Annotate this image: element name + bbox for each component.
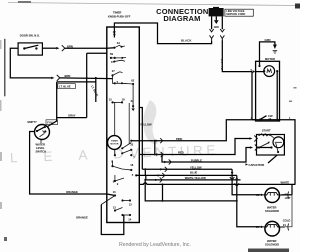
svg-text:GND: GND (214, 26, 220, 29)
svg-text:TIMER: TIMER (111, 141, 118, 143)
svg-text:GRN: GRN (265, 38, 271, 42)
svg-text:63: 63 (131, 79, 134, 83)
svg-text:DIAGRAM: DIAGRAM (163, 14, 200, 23)
svg-text:DOOR SW. N.O.: DOOR SW. N.O. (20, 33, 40, 37)
svg-text:62: 62 (131, 99, 134, 103)
svg-text:18: 18 (130, 163, 133, 167)
svg-text:WHITE-YELLOW: WHITE-YELLOW (185, 176, 207, 180)
svg-text:GRAY: GRAY (68, 113, 76, 117)
svg-text:SOLENOID: SOLENOID (265, 209, 279, 213)
svg-text:21: 21 (283, 223, 286, 227)
svg-text:12: 12 (113, 30, 116, 34)
svg-text:FULL: FULL (47, 121, 54, 125)
svg-text:5: 5 (132, 173, 134, 177)
svg-text:BRN: BRN (65, 74, 71, 78)
svg-text:BRN: BRN (67, 44, 73, 48)
svg-text:Rendered by LeadVenture, Inc.: Rendered by LeadVenture, Inc. (119, 242, 191, 248)
svg-text:LEAD: LEAD (10, 145, 150, 165)
svg-text:22: 22 (256, 193, 259, 197)
svg-text:27: 27 (112, 69, 115, 73)
svg-text:10: 10 (113, 190, 116, 194)
svg-text:PINK: PINK (176, 137, 182, 141)
svg-text:15: 15 (111, 60, 114, 64)
svg-text:CAPACITOR: CAPACITOR (249, 163, 265, 167)
svg-text:COLD: COLD (283, 219, 291, 223)
svg-text:3A: 3A (268, 117, 271, 121)
svg-text:START: START (262, 129, 271, 133)
svg-text:YELLOW: YELLOW (190, 166, 202, 170)
svg-text:2A: 2A (117, 41, 120, 45)
svg-text:TIMER: TIMER (113, 10, 121, 14)
svg-text:WATER: WATER (36, 143, 46, 147)
svg-text:SERVICE CORD: SERVICE CORD (226, 13, 245, 16)
svg-text:VENTURE: VENTURE (130, 142, 220, 160)
svg-text:LT. BLUE: LT. BLUE (59, 85, 71, 89)
svg-text:WATER: WATER (267, 239, 277, 243)
svg-text:WATER: WATER (267, 205, 277, 209)
svg-text:WHITE: WHITE (281, 181, 290, 185)
svg-text:5: 5 (251, 68, 253, 72)
svg-text:LT. BLUE: LT. BLUE (90, 85, 99, 98)
svg-text:ORANGE: ORANGE (76, 216, 88, 220)
svg-text:ORANGE: ORANGE (66, 190, 78, 194)
svg-text:KNOB-PUSH OFF: KNOB-PUSH OFF (108, 14, 131, 18)
svg-text:MOTOR: MOTOR (110, 144, 119, 146)
svg-text:YELLOW: YELLOW (140, 122, 152, 126)
svg-text:9: 9 (117, 182, 119, 186)
svg-text:14: 14 (128, 218, 131, 222)
svg-text:13: 13 (113, 206, 116, 210)
svg-text:18: 18 (122, 98, 125, 102)
svg-text:EMPTY: EMPTY (28, 120, 37, 124)
svg-text:32: 32 (130, 142, 133, 146)
svg-text:15: 15 (109, 98, 112, 102)
svg-text:PURPLE: PURPLE (191, 158, 202, 162)
svg-text:SWITCH: SWITCH (36, 150, 47, 154)
svg-text:BLUE: BLUE (190, 170, 198, 174)
svg-text:12: 12 (129, 203, 132, 207)
svg-text:RED: RED (178, 151, 184, 155)
svg-text:20: 20 (256, 225, 259, 229)
svg-text:MOTOR: MOTOR (265, 57, 275, 61)
svg-text:LEVEL: LEVEL (36, 146, 45, 150)
svg-text:BLACK: BLACK (181, 39, 192, 43)
svg-text:7B: 7B (110, 52, 113, 56)
svg-text:SOLENOID: SOLENOID (265, 243, 279, 247)
